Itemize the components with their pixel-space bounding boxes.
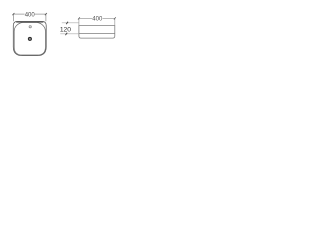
background (0, 0, 130, 70)
top view: dimension 400 line left segment (13, 13, 24, 15)
side view: dimension 400 extension line right (114, 18, 116, 26)
top view: drain hole (28, 37, 31, 40)
side view: dimension 400 line right segment (103, 17, 115, 19)
side view: body outline with rounded bottom corners (79, 26, 115, 38)
side view: dimension 400 line left segment (79, 17, 92, 19)
top view: basin inner bowl rim (14, 23, 45, 56)
top view: dimension 400 extension line left (12, 14, 14, 22)
top view: basin outer outline (13, 21, 46, 55)
svg-text:400: 400 (92, 16, 103, 22)
washbasin technical drawing (0, 0, 130, 70)
top view: dimension tick right (45, 13, 47, 15)
top view: rim deck dark band (16, 21, 43, 23)
side view: dimension 400 extension line left (78, 18, 80, 26)
height dim 120: lower tick (65, 33, 67, 36)
top view: dimension 400 extension line right (45, 14, 47, 22)
svg-text:120: 120 (60, 27, 71, 34)
side view: inner horizontal line (79, 33, 115, 35)
height dim 120: upper tick (66, 22, 68, 25)
svg-text:400: 400 (25, 12, 36, 18)
height dim 120: lower leader line (60, 33, 79, 35)
height dim 120: upper leader line (62, 22, 79, 24)
top view: dimension tick left (12, 13, 14, 15)
top view: dimension 400 line right segment (35, 13, 46, 15)
side view: dimension tick left (78, 17, 80, 19)
side view: dimension tick right (114, 17, 116, 19)
top view: faucet hole (29, 26, 31, 28)
